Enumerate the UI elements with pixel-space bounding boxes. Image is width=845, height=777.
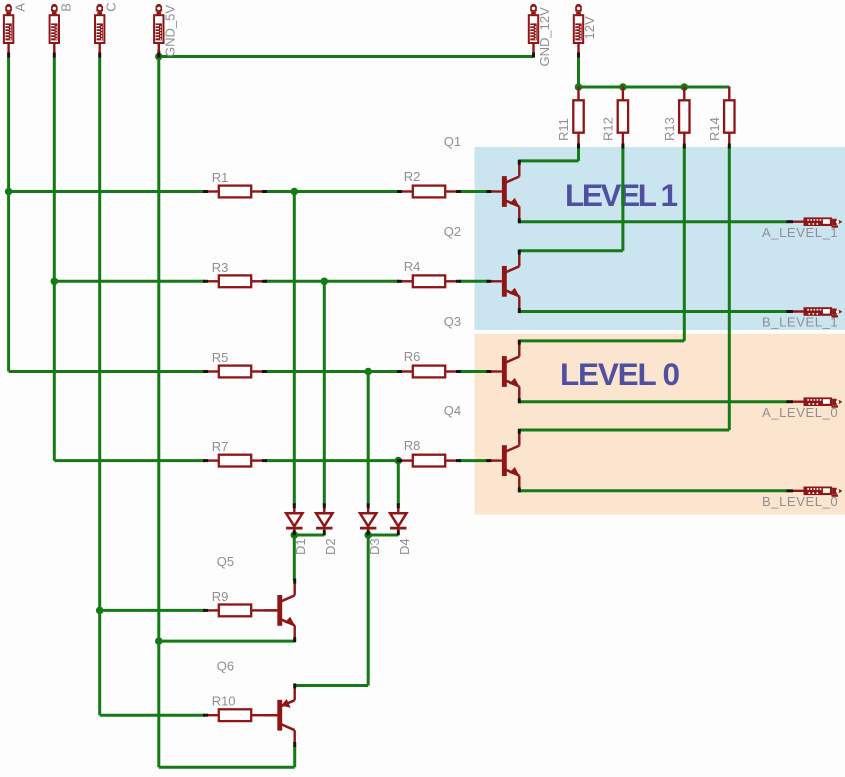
resistor R3 [203, 275, 267, 287]
junction GND_5V bus [155, 53, 163, 61]
transistor Q5 [264, 579, 296, 643]
wire R9 to Q5 base [265, 609, 277, 611]
connector pin 12V [574, 4, 583, 58]
svg-text:R10: R10 [212, 694, 236, 709]
wire D3 to Q6 emitter [295, 684, 369, 687]
svg-text:D2: D2 [323, 538, 338, 555]
svg-text:R6: R6 [404, 349, 421, 364]
LEVEL 1 region highlight [475, 147, 845, 330]
wire R11 to Q1 collector [577, 147, 580, 161]
svg-text:GND_12V: GND_12V [537, 7, 552, 67]
svg-text:R8: R8 [404, 438, 421, 453]
svg-text:C: C [104, 2, 119, 11]
connector pin B [50, 4, 59, 58]
junction R5-R6/D3 [364, 368, 372, 376]
transistor Q3 [486, 340, 520, 404]
wire R4 to Q2 base [459, 280, 489, 283]
resistor R6 [397, 366, 461, 378]
wire R5 to R6 [265, 370, 399, 373]
wire D3-D4 cathode link [368, 534, 398, 537]
resistor R10 [203, 709, 265, 721]
resistor R7 [203, 455, 267, 467]
svg-text:Q1: Q1 [444, 134, 461, 149]
wire D1 to Q5 collector [293, 535, 296, 581]
wire GND_5V vertical [157, 50, 160, 767]
junction D1-D2 cathodes [291, 531, 299, 539]
wire GND to Q6 collector [293, 746, 296, 768]
junction R3-R4/D2 [321, 278, 329, 286]
wire R14 to Q4 collector [728, 147, 731, 431]
wire GND bottom horizontal [159, 766, 295, 769]
svg-text:A_LEVEL_0: A_LEVEL_0 [762, 405, 838, 420]
connector B_LEVEL_0 [786, 487, 842, 497]
junction 12V bus R12 [619, 83, 627, 91]
svg-text:D1: D1 [293, 538, 308, 555]
svg-text:B: B [58, 3, 73, 12]
wire D3 branch down [367, 372, 370, 506]
wire net B to R3 [54, 280, 205, 283]
wire net C to R9 [100, 609, 205, 612]
connector pin GND_5V [154, 4, 163, 58]
wire Q3 emitter to A_LEVEL_0 [519, 400, 786, 403]
resistor R11 [573, 87, 583, 149]
wire net C vertical [98, 57, 101, 715]
wire D2 branch down [323, 281, 326, 505]
resistor R13 [679, 87, 689, 149]
wire net C to R10 [100, 714, 205, 717]
junction 12V bus R13 [681, 83, 689, 91]
junction 12V bus R11 [575, 83, 583, 91]
wire R10 to Q6 base [265, 714, 277, 716]
wire R3 to R4 [265, 280, 399, 283]
diode D3 [360, 503, 376, 535]
wire R12 to Q2 collector [621, 147, 624, 251]
wire R8 to Q4 base [459, 459, 489, 462]
connector pin A [4, 4, 13, 58]
resistor R9 [203, 605, 265, 617]
svg-text:Q2: Q2 [444, 224, 461, 239]
junction R1-R2/D1 [291, 188, 299, 196]
wire Q1 emitter to A_LEVEL_1 [519, 220, 786, 223]
svg-text:R9: R9 [212, 589, 229, 604]
svg-text:B_LEVEL_1: B_LEVEL_1 [762, 315, 838, 330]
svg-text:R14: R14 [707, 117, 722, 141]
wire net B vertical [53, 57, 56, 461]
resistor R14 [724, 87, 734, 149]
svg-text:R2: R2 [404, 169, 421, 184]
connector A_LEVEL_1 [786, 217, 842, 227]
diode D2 [316, 503, 332, 535]
svg-text:R3: R3 [212, 260, 229, 275]
wire Q5 emitter to GND [159, 640, 295, 643]
junction R7-R8/D4 [395, 457, 403, 465]
junction GND Q5 emitter [155, 637, 163, 645]
svg-text:R12: R12 [600, 117, 615, 141]
wire D1 branch down [293, 192, 296, 506]
svg-text:R5: R5 [212, 350, 229, 365]
wire 12V pin down [577, 57, 580, 87]
svg-text:R1: R1 [212, 170, 229, 185]
resistor R8 [397, 455, 461, 467]
junction net B row3 [51, 278, 59, 286]
transistor Q4 [486, 429, 520, 493]
diode D4 [390, 503, 406, 535]
wire R7 to R8 [265, 459, 399, 462]
svg-text:B_LEVEL_0: B_LEVEL_0 [762, 494, 838, 509]
connector pin C [95, 4, 104, 58]
wire net B to R7 [54, 459, 205, 462]
resistor R5 [203, 366, 267, 378]
svg-text:LEVEL 0: LEVEL 0 [560, 356, 680, 392]
svg-text:Q5: Q5 [217, 554, 234, 569]
wire Q4 emitter to B_LEVEL_0 [519, 489, 786, 492]
LEVEL 0 region highlight [475, 334, 845, 515]
wire GND bus [159, 55, 534, 58]
transistor Q2 [486, 250, 520, 314]
wire D1-D2 cathode link [294, 534, 324, 537]
svg-text:Q3: Q3 [444, 314, 461, 329]
transistor Q1 [486, 160, 520, 224]
svg-text:12V: 12V [582, 16, 597, 39]
transistor Q6 [264, 683, 296, 747]
wire R1 to R2 [265, 190, 399, 193]
junction D3-D4 cathodes [364, 531, 372, 539]
svg-text:Q6: Q6 [217, 659, 234, 674]
resistor R1 [203, 186, 267, 198]
wire 12V bus [579, 86, 730, 89]
svg-text:R11: R11 [556, 118, 571, 141]
wire D3 cathode down [367, 535, 370, 686]
svg-text:GND_5V: GND_5V [162, 5, 177, 57]
svg-text:D3: D3 [367, 538, 382, 555]
svg-text:R4: R4 [404, 259, 421, 274]
wire net A vertical [7, 57, 10, 372]
wire net A to R1 [9, 190, 205, 193]
junction net C R9 [96, 607, 104, 615]
wire net A to R5 [9, 370, 205, 373]
connector B_LEVEL_1 [786, 307, 842, 317]
resistor R2 [397, 186, 461, 198]
wire Q2 emitter to B_LEVEL_1 [519, 310, 786, 313]
svg-text:R7: R7 [212, 439, 229, 454]
wire R13 to Q3 collector [683, 147, 686, 341]
svg-text:A: A [13, 3, 28, 12]
wire R6 to Q3 base [459, 370, 489, 373]
resistor R12 [618, 87, 628, 149]
svg-text:D4: D4 [397, 538, 412, 555]
connector pin GND_12V [529, 4, 538, 58]
diode D1 [286, 503, 302, 535]
wire D4 branch down [397, 461, 400, 506]
svg-text:R13: R13 [662, 117, 677, 141]
junction net A row1 [5, 188, 13, 196]
svg-text:Q4: Q4 [444, 403, 461, 418]
connector A_LEVEL_0 [786, 397, 842, 407]
svg-text:A_LEVEL_1: A_LEVEL_1 [762, 225, 838, 240]
wire R2 to Q1 base [459, 190, 489, 193]
resistor R4 [397, 275, 461, 287]
